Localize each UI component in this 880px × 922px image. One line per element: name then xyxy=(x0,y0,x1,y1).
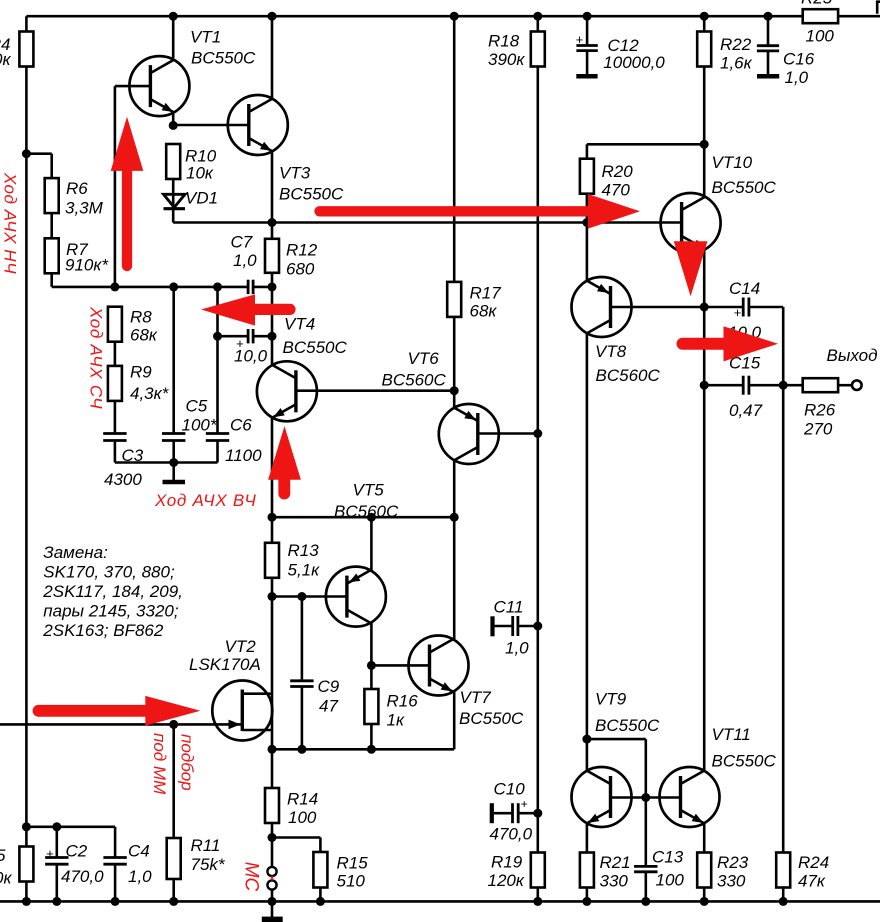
svg-text:+: + xyxy=(576,32,584,47)
wire mid rail R13 xyxy=(268,513,459,522)
node C11 xyxy=(533,622,542,631)
wire long rail to VT10 base xyxy=(173,218,681,227)
wire R6-R7 link xyxy=(50,213,53,238)
svg-text:1,0: 1,0 xyxy=(785,68,809,87)
capacitor C6 xyxy=(206,416,262,466)
svg-text:680: 680 xyxy=(286,260,315,279)
wire R17 column top xyxy=(453,16,456,282)
svg-text:Ход АЧХ НЧ: Ход АЧХ НЧ xyxy=(1,172,20,274)
svg-text:R13: R13 xyxy=(288,541,320,560)
svg-text:VT8: VT8 xyxy=(595,342,627,361)
transistor VT10 xyxy=(661,153,777,253)
svg-text:R9: R9 xyxy=(130,363,152,382)
wire R11 column xyxy=(172,724,175,901)
svg-text:Ход АЧХ ВЧ: Ход АЧХ ВЧ xyxy=(154,491,257,510)
wire VT2 drain column xyxy=(271,597,274,750)
wire C2 C4 rail xyxy=(22,822,115,831)
capacitor C10 xyxy=(490,780,538,844)
red text Ход АЧХ СЧ xyxy=(86,306,105,409)
svg-text:1,0: 1,0 xyxy=(233,251,257,270)
red arrow right at output xyxy=(683,326,779,361)
capacitor C9 xyxy=(290,677,340,716)
transistor VT2 JFET xyxy=(189,637,272,741)
transistor VT7 xyxy=(409,636,524,729)
svg-text:под ММ: под ММ xyxy=(150,733,169,795)
svg-text:0к: 0к xyxy=(0,869,12,888)
svg-text:510: 510 xyxy=(337,872,366,891)
svg-text:C3: C3 xyxy=(122,446,144,465)
svg-text:120к: 120к xyxy=(488,871,525,890)
svg-text:0к: 0к xyxy=(0,50,11,69)
capacitor C8 10,0 xyxy=(234,329,268,366)
wire VT7 base rail xyxy=(367,661,429,670)
wire VT9 collector xyxy=(586,739,589,771)
resistor R12 xyxy=(265,239,318,279)
wire VT10 emitter xyxy=(703,250,706,307)
svg-text:R11: R11 xyxy=(191,836,221,855)
wire VT10 collector xyxy=(703,144,706,196)
red arrow right at input xyxy=(39,696,201,726)
wire R8-R9 link xyxy=(114,342,117,366)
terminal bar below C16 xyxy=(757,74,779,79)
capacitor C7 xyxy=(231,233,258,295)
svg-text:Выход: Выход xyxy=(827,346,878,365)
svg-text:10к: 10к xyxy=(186,164,214,183)
svg-text:270: 270 xyxy=(803,420,833,439)
wire R13 bottom xyxy=(271,578,274,597)
svg-text:R17: R17 xyxy=(470,284,502,303)
capacitor C4 xyxy=(103,842,152,887)
wire R24 column xyxy=(782,385,785,901)
wire MC jumper column xyxy=(271,838,274,902)
wire bottom ground rail xyxy=(0,900,880,903)
svg-text:R23: R23 xyxy=(717,853,749,872)
red text подбор xyxy=(177,734,196,791)
resistor R7 xyxy=(45,238,110,274)
wire VT1 base lead xyxy=(115,85,150,88)
svg-text:100: 100 xyxy=(656,871,685,890)
capacitor C3 xyxy=(103,434,144,490)
wire R12 top xyxy=(271,223,274,239)
svg-text:R22: R22 xyxy=(720,35,752,54)
svg-text:1,0: 1,0 xyxy=(505,639,529,658)
wire VT9 emitter xyxy=(586,823,589,853)
svg-text:R21: R21 xyxy=(600,853,631,872)
red arrow up at VT4 xyxy=(268,426,301,493)
svg-text:LSK170A: LSK170A xyxy=(189,655,261,674)
svg-text:+: + xyxy=(734,305,742,320)
ground symbol bottom xyxy=(262,901,283,922)
wire R22 column xyxy=(703,16,706,144)
svg-text:47к: 47к xyxy=(798,872,826,891)
wire R15 branch xyxy=(272,838,320,902)
wire R26 to output xyxy=(838,384,852,387)
svg-text:100: 100 xyxy=(288,808,317,827)
capacitor C2 xyxy=(45,842,104,887)
svg-text:VT7: VT7 xyxy=(460,688,492,707)
red arrow long to VT10 xyxy=(320,194,641,229)
wire C4 leads xyxy=(114,827,117,902)
capacitor C16 xyxy=(757,46,815,87)
wire C8 rail xyxy=(213,332,277,341)
svg-text:4300: 4300 xyxy=(104,470,142,489)
capacitor C14 xyxy=(728,279,762,342)
replacement note text xyxy=(42,543,183,640)
resistor R13 xyxy=(265,541,320,580)
wire VT4 emitter xyxy=(271,417,274,517)
transistor VT8 xyxy=(572,277,661,385)
wire R7 to feedback rail xyxy=(50,273,53,287)
svg-text:VT10: VT10 xyxy=(712,153,753,172)
svg-text:5: 5 xyxy=(0,846,6,865)
svg-text:10,0: 10,0 xyxy=(234,347,268,366)
svg-text:R15: R15 xyxy=(337,854,369,873)
wire R17 bottom to VT6 xyxy=(453,317,456,408)
svg-text:R25: R25 xyxy=(801,0,833,8)
svg-text:C16: C16 xyxy=(783,50,815,69)
svg-text:R20: R20 xyxy=(602,162,634,181)
svg-text:BC550C: BC550C xyxy=(712,178,777,197)
resistor R22 xyxy=(697,32,752,73)
svg-text:BC560C: BC560C xyxy=(382,371,447,390)
svg-text:5,1к: 5,1к xyxy=(288,561,321,580)
svg-text:100*: 100* xyxy=(182,416,218,435)
svg-text:МС: МС xyxy=(240,862,261,892)
resistor R14 xyxy=(265,788,318,827)
transistor VT1 xyxy=(129,28,256,117)
svg-text:C10: C10 xyxy=(494,780,526,799)
svg-text:BC560C: BC560C xyxy=(596,366,661,385)
wire C6 column xyxy=(216,287,219,434)
svg-text:1,6к: 1,6к xyxy=(720,54,753,73)
wire C2 leads xyxy=(55,827,58,902)
resistor R16 xyxy=(364,689,418,730)
resistor R17 xyxy=(447,282,501,321)
svg-text:VT5: VT5 xyxy=(353,481,385,500)
red text под ММ xyxy=(150,733,169,795)
wire R12 bottom xyxy=(271,273,274,287)
wire VT1 base column xyxy=(114,86,117,287)
wire C9 bottom xyxy=(301,687,304,750)
resistor R21 xyxy=(580,853,631,891)
svg-text:R12: R12 xyxy=(286,241,318,260)
resistor R15 xyxy=(313,852,368,891)
svg-text:1к: 1к xyxy=(387,711,405,730)
wire VT5 emitter up xyxy=(370,517,373,571)
svg-text:C5: C5 xyxy=(186,397,208,416)
junction dots on feedback rail xyxy=(110,282,276,291)
capacitor C5 xyxy=(162,397,218,441)
svg-text:390к: 390к xyxy=(488,50,525,69)
resistor R8 xyxy=(108,307,158,345)
svg-text:47: 47 xyxy=(319,697,338,716)
red text МС xyxy=(240,862,261,892)
svg-text:470,0: 470,0 xyxy=(490,825,533,844)
wire C15 rail xyxy=(704,384,783,387)
svg-text:C11: C11 xyxy=(494,598,524,617)
wire R14 bottom xyxy=(268,823,277,842)
svg-text:VT3: VT3 xyxy=(279,164,311,183)
resistor R24 xyxy=(776,853,829,891)
wire VT8 collector down xyxy=(586,333,589,739)
svg-text:C7: C7 xyxy=(231,233,253,252)
wire R19 bottom xyxy=(536,888,539,902)
wire VT1 collector xyxy=(172,16,175,58)
capacitor C11 xyxy=(490,598,537,658)
svg-text:подбор: подбор xyxy=(177,734,196,791)
wire VT5 collector down xyxy=(370,622,373,665)
svg-text:R26: R26 xyxy=(804,401,836,420)
svg-text:R16: R16 xyxy=(387,692,419,711)
resistor R11 xyxy=(167,836,226,879)
wire VT6 collector down xyxy=(453,460,456,517)
resistor R5 (cut at edge) xyxy=(0,846,33,888)
wire top supply rail xyxy=(26,15,880,18)
wire C16 leads xyxy=(767,16,770,74)
wire VT4 base to VT6 xyxy=(296,386,459,395)
svg-text:910к*: 910к* xyxy=(65,256,109,275)
wire VT9 VT11 base link xyxy=(610,796,680,799)
wire VT10 emitter lower xyxy=(700,307,709,390)
wire VT3 emitter xyxy=(271,151,274,223)
red text Ход АЧХ НЧ xyxy=(1,172,20,274)
red arrow down at VT10 xyxy=(674,241,708,296)
svg-text:SK170, 370, 880;: SK170, 370, 880; xyxy=(43,563,175,582)
svg-text:C2: C2 xyxy=(66,842,88,861)
resistor R20 xyxy=(580,159,633,200)
red arrow up at VT1 xyxy=(111,117,144,266)
transistor VT6 xyxy=(382,349,499,464)
svg-text:68к: 68к xyxy=(130,326,158,345)
wire VT1 emitter to node xyxy=(169,112,178,130)
capacitor C13 xyxy=(634,848,684,890)
red text Ход АЧХ ВЧ xyxy=(154,491,257,510)
svg-text:R18: R18 xyxy=(488,32,520,51)
svg-text:75k*: 75k* xyxy=(191,855,226,874)
svg-text:Ход АЧХ СЧ: Ход АЧХ СЧ xyxy=(86,306,105,409)
wire R23 bottom xyxy=(703,888,706,902)
node R6 branch xyxy=(22,149,52,178)
output terminal xyxy=(827,346,878,390)
svg-text:2SK163; BF862: 2SK163; BF862 xyxy=(42,621,164,640)
wire VT11 collector up xyxy=(703,385,706,771)
transistor VT11 xyxy=(660,725,777,827)
wire R10 to VD1 to rail xyxy=(172,179,175,223)
wire VT5 base rail xyxy=(268,592,347,601)
wire VT7 emitter xyxy=(453,691,456,749)
wire C12 leads xyxy=(586,16,589,74)
svg-text:100: 100 xyxy=(806,27,835,46)
transistor VT3 xyxy=(228,95,344,204)
svg-text:R8: R8 xyxy=(130,308,152,327)
svg-text:VD1: VD1 xyxy=(185,189,218,208)
junction nodes on top rail xyxy=(169,12,773,21)
svg-text:пары 2145, 3320;: пары 2145, 3320; xyxy=(43,602,179,621)
svg-text:C13: C13 xyxy=(652,848,684,867)
svg-text:C6: C6 xyxy=(230,416,252,435)
svg-text:VT11: VT11 xyxy=(712,725,751,744)
svg-text:+: + xyxy=(46,846,54,861)
wire C9 top xyxy=(301,597,304,681)
svg-text:3,3M: 3,3M xyxy=(65,199,104,218)
resistor R18 xyxy=(488,32,545,70)
svg-text:BC550C: BC550C xyxy=(712,752,777,771)
svg-text:470: 470 xyxy=(602,181,631,200)
wire R18 column xyxy=(536,16,539,813)
red arrow left at C7 xyxy=(201,294,290,325)
svg-text:0,47: 0,47 xyxy=(729,401,763,420)
svg-text:BC550C: BC550C xyxy=(283,338,348,357)
wire VT3 collector xyxy=(271,16,274,99)
resistor R4 (cut at edge) xyxy=(0,32,33,70)
wire C14 rail xyxy=(704,306,783,309)
svg-text:330: 330 xyxy=(600,872,629,891)
wire feedback rail xyxy=(52,286,272,289)
wire VT4 collector xyxy=(271,336,274,365)
wire VT8 base link xyxy=(610,303,709,312)
wire to R26 xyxy=(783,384,803,387)
svg-text:Замена:: Замена: xyxy=(43,543,108,562)
svg-text:BC560C: BC560C xyxy=(334,502,399,521)
svg-text:1100: 1100 xyxy=(225,446,262,465)
wire VT8 emitter up xyxy=(586,223,589,281)
wire VT7 collector xyxy=(453,517,456,640)
node C10 xyxy=(533,809,542,818)
wire C14-C15 right column xyxy=(779,307,788,390)
svg-text:VT6: VT6 xyxy=(408,349,440,368)
svg-text:C4: C4 xyxy=(128,842,150,861)
svg-text:R6: R6 xyxy=(66,179,88,198)
wire R9 to C3 xyxy=(114,400,117,434)
ground after C3 xyxy=(163,463,186,483)
svg-text:68к: 68к xyxy=(470,302,498,321)
wire C5 column xyxy=(172,287,175,434)
junction dots on bottom rail xyxy=(22,897,788,906)
wire C7 C8 mid column xyxy=(271,287,274,336)
wire R21 bottom xyxy=(586,888,589,902)
transistor VT5 xyxy=(326,481,399,627)
wire node to VT3 base xyxy=(173,124,248,127)
svg-text:4,3к*: 4,3к* xyxy=(130,384,170,403)
resistor R9 xyxy=(108,363,170,404)
svg-text:BC550C: BC550C xyxy=(595,716,660,735)
resistor R25 (cut label) xyxy=(801,0,838,46)
resistor R6 xyxy=(45,178,104,217)
wire source rail xyxy=(268,745,455,754)
svg-text:VT1: VT1 xyxy=(190,28,221,47)
svg-text:VT4: VT4 xyxy=(284,315,315,334)
resistor R23 xyxy=(697,853,749,891)
wire R19 top xyxy=(536,813,539,852)
svg-text:2SK117, 184, 209,: 2SK117, 184, 209, xyxy=(42,582,183,601)
wire VT11 emitter xyxy=(703,823,706,853)
svg-text:R14: R14 xyxy=(287,790,318,809)
capacitor C15 xyxy=(729,354,763,421)
wire C13 column xyxy=(644,798,647,902)
transistor VT9 xyxy=(572,690,660,828)
svg-text:BC550C: BC550C xyxy=(191,49,256,68)
svg-text:R19: R19 xyxy=(491,853,523,872)
transistor VT4 xyxy=(257,315,348,422)
wire R20 top link xyxy=(587,140,709,159)
capacitor C12 xyxy=(576,32,666,72)
svg-text:C9: C9 xyxy=(318,677,340,696)
svg-text:330: 330 xyxy=(717,872,746,891)
wire R20 bottom xyxy=(586,194,589,223)
svg-text:10000,0: 10000,0 xyxy=(603,53,665,72)
wire C3 C5 C6 bottom rail xyxy=(115,441,218,468)
resistor R19 xyxy=(488,853,545,891)
wire left supply column xyxy=(25,16,28,901)
wire R13 top xyxy=(271,517,274,543)
resistor R10 xyxy=(166,144,217,183)
wire mirror jog xyxy=(582,735,650,802)
corner fragment top right xyxy=(877,2,880,14)
svg-text:R24: R24 xyxy=(798,853,829,872)
svg-text:VT9: VT9 xyxy=(595,690,627,709)
terminal bar below C12 xyxy=(576,74,597,79)
wire R16 column xyxy=(370,665,373,749)
svg-text:VT2: VT2 xyxy=(225,637,257,656)
wire VT6 base link xyxy=(478,429,543,438)
resistor R26 xyxy=(803,378,838,438)
svg-text:470,0: 470,0 xyxy=(61,867,104,886)
svg-text:1,0: 1,0 xyxy=(128,867,152,886)
svg-text:C14: C14 xyxy=(729,279,760,298)
wire VT2 source to node xyxy=(271,749,274,788)
svg-text:BC550C: BC550C xyxy=(279,185,344,204)
svg-text:+: + xyxy=(521,797,528,811)
jumper MC contacts xyxy=(267,867,276,890)
wire input gate rail xyxy=(0,720,242,729)
diode VD1 xyxy=(164,189,219,209)
svg-text:BC550C: BC550C xyxy=(459,709,524,728)
